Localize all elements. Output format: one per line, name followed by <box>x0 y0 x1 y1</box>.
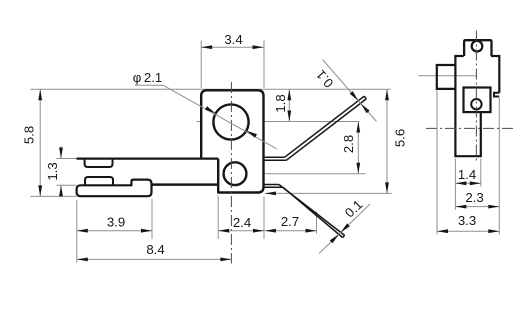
svg-text:2.7: 2.7 <box>281 214 299 229</box>
extension line: side view left (3.3) <box>436 91 438 235</box>
svg-text:3.3: 3.3 <box>458 213 476 228</box>
dimension 3.4 <box>201 32 263 49</box>
lower tab hole <box>471 99 481 109</box>
extension line: leg left below <box>454 159 456 210</box>
extension line: foot right vertical below (3.9) <box>151 199 153 239</box>
dimension 5.8 <box>22 89 42 196</box>
top tab hole <box>472 41 483 52</box>
extension line: body step vertical below (2.4 left) <box>217 196 219 240</box>
extension line: 2.7 right vertical <box>316 212 318 234</box>
dimension 1.3 <box>45 146 63 198</box>
slot dimple on upper bar <box>85 160 113 168</box>
lower strip to foot <box>151 183 219 186</box>
top tab with hole <box>464 40 491 56</box>
svg-text:2.8: 2.8 <box>341 135 356 153</box>
upper terminal bar <box>77 157 219 159</box>
side view horizontal center line <box>426 127 514 129</box>
svg-text:3.9: 3.9 <box>107 215 125 230</box>
extension line: 3.4 left vertical <box>200 41 202 88</box>
dimension 0.1 upper arm thickness <box>313 60 377 122</box>
dimension 2.3 <box>455 190 499 208</box>
dimension 3.3 <box>437 213 499 233</box>
extension line: foot top left (1.3 bottom) <box>57 184 77 186</box>
extension line: body bottom right with arrow <box>265 192 392 194</box>
side body left/leg left edge <box>454 56 456 156</box>
svg-text:φ 2.1: φ 2.1 <box>133 70 163 85</box>
extension line: leg right below <box>480 159 482 187</box>
extension line: body right vertical below (2.4/2.7) <box>263 197 265 240</box>
dimension 1.4 <box>455 167 480 185</box>
side body right edge <box>498 55 500 93</box>
extension line: left tab center horizontal <box>419 75 478 77</box>
dimension 8.4 <box>77 242 232 261</box>
center line vertical (main view) <box>230 82 232 264</box>
dimension 3.9 <box>77 215 152 233</box>
dimension 2.4 <box>218 215 264 232</box>
svg-text:1.3: 1.3 <box>45 162 60 180</box>
extension line: bar top left (1.3 top) <box>57 158 78 160</box>
bump on foot <box>85 177 113 186</box>
svg-text:5.6: 5.6 <box>393 129 408 147</box>
dimension 5.6 <box>385 89 408 193</box>
small hole <box>224 162 247 185</box>
svg-text:8.4: 8.4 <box>146 242 164 257</box>
extension line: foot bottom, y=196.4 <box>31 195 77 197</box>
svg-text:5.8: 5.8 <box>22 126 37 144</box>
dimension 2.7 <box>265 214 317 232</box>
large hole phi2.1 <box>213 104 248 139</box>
body outline <box>201 90 263 192</box>
extension line: small hole center horizontal <box>225 173 366 175</box>
extension line: 3.4 right vertical <box>263 41 265 88</box>
svg-text:1.4: 1.4 <box>458 167 476 182</box>
side view vertical center line <box>475 31 477 164</box>
upper contact arm <box>264 96 367 160</box>
leg right edge <box>480 112 482 156</box>
leg bottom edge <box>454 155 482 157</box>
extension line: side view right (2.3/3.3) <box>498 98 500 234</box>
right step notch <box>494 93 499 97</box>
dimension 0.1 lower arm thickness <box>319 197 370 254</box>
extension line: foot left vertical below <box>76 200 78 263</box>
extension line: large hole center horizontal <box>197 121 360 123</box>
svg-text:2.3: 2.3 <box>465 190 483 205</box>
svg-text:3.4: 3.4 <box>224 32 242 47</box>
left tab <box>437 65 456 89</box>
dimension 1.8 <box>273 89 291 121</box>
lower tab with hole <box>464 88 491 113</box>
svg-text:2.4: 2.4 <box>233 215 251 230</box>
lower contact arm <box>264 185 345 238</box>
svg-text:1.8: 1.8 <box>273 94 288 112</box>
extension line: body top, y=89.3 <box>31 88 391 90</box>
dimension phi2.1 leader <box>133 70 277 149</box>
foot (solder lug) outline <box>77 180 152 197</box>
side body top edge segments <box>454 55 464 57</box>
dimension 2.8 <box>341 122 360 174</box>
